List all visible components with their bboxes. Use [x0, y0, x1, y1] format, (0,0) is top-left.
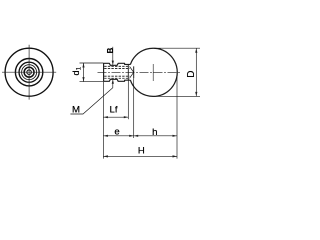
svg-text:h: h: [152, 127, 157, 138]
svg-text:H: H: [138, 146, 145, 157]
svg-text:D: D: [186, 70, 197, 77]
svg-text:B: B: [106, 47, 115, 53]
svg-text:Lf: Lf: [109, 105, 117, 116]
svg-text:e: e: [114, 127, 119, 138]
svg-text:M: M: [72, 105, 80, 116]
